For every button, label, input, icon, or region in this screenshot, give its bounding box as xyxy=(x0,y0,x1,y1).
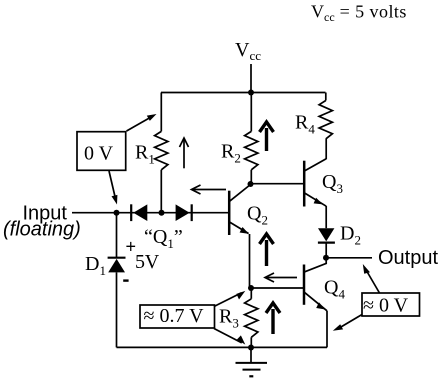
wire: Q4 emitter down xyxy=(326,311,328,348)
node: R3 top node dot xyxy=(248,285,254,291)
node: Q1 base node dot xyxy=(159,210,165,216)
callout arrow: 0 V box to R1 top xyxy=(127,114,157,131)
callout arrow: 0V box to Q4 emitter wire xyxy=(333,315,362,331)
diode Q1 base-collector (right) xyxy=(176,204,192,221)
wire: D1 anode lead xyxy=(116,213,118,258)
wire: D2 cathode to output node xyxy=(325,243,327,258)
svg-text:(floating): (floating) xyxy=(3,219,81,241)
resistor R3 xyxy=(245,299,258,338)
current arrow (bold, up) beside R3 xyxy=(266,303,280,334)
wire: Q3 base lead xyxy=(251,183,305,185)
wire: R3 bottom lead xyxy=(250,337,252,347)
node: output node dot xyxy=(323,255,329,261)
wire: R3 top lead xyxy=(250,288,252,299)
callout arrow: 0.7V box to ground node xyxy=(214,329,245,345)
resistor R1 xyxy=(155,131,168,169)
svg-text:V: V xyxy=(145,251,160,273)
svg-text:≈ 0 V: ≈ 0 V xyxy=(363,295,409,317)
svg-text:≈ 0.7 V: ≈ 0.7 V xyxy=(144,305,205,327)
wire: R4 to Q3 collector xyxy=(325,139,327,159)
current arrow (thin, left) above Q4 base xyxy=(265,273,297,282)
wire: bottom wire xyxy=(117,346,328,348)
node: rail junction dot xyxy=(248,90,254,96)
label - polarity (dash) xyxy=(123,279,128,281)
current arrow (bold, up) beside R2 xyxy=(260,122,274,151)
wire: R2 bottom lead xyxy=(250,170,252,184)
wire: Vcc lead xyxy=(250,64,252,93)
callout box ~0.7 V xyxy=(140,305,215,328)
node: ground node dot xyxy=(248,345,254,351)
wire: Q2 emitter lead down xyxy=(249,234,251,288)
current arrow (bold, up) beside Q2 emitter xyxy=(260,234,274,266)
diode Q1 base-emitter (left) xyxy=(131,204,147,221)
callout arrow: 0V box to output line xyxy=(363,264,380,293)
svg-text:0 V: 0 V xyxy=(84,143,114,165)
transistor Q3 xyxy=(304,159,326,207)
ground xyxy=(236,348,268,377)
wire: R1 bottom lead xyxy=(160,170,162,213)
current arrow (thin, up) beside R1 xyxy=(180,138,189,168)
node: Q2 collector node dot xyxy=(248,181,254,187)
wire: R4 top lead xyxy=(325,93,327,101)
node: input node dot xyxy=(114,210,120,216)
svg-text:5: 5 xyxy=(135,251,145,273)
wire: output line xyxy=(326,257,372,259)
callout box ~0 V xyxy=(362,293,420,316)
wire: top supply rail xyxy=(161,92,326,94)
current arrow (thin, left) above Q2 base xyxy=(192,185,227,194)
wire: D1 cathode to bottom wire xyxy=(116,272,118,347)
wire: R1 top lead xyxy=(160,93,162,132)
transistor Q2 xyxy=(229,185,250,236)
wire: Q4 base lead xyxy=(251,287,304,289)
svg-text:“Q1”: “Q1” xyxy=(144,226,183,251)
wire: Q3 emitter to D2 xyxy=(325,206,327,228)
callout arrow: 0.7V box to R3 top node xyxy=(214,291,245,307)
wire: input line xyxy=(72,212,229,214)
wire: R2 top lead xyxy=(250,93,252,132)
diode D2 xyxy=(318,228,335,242)
diode D1 xyxy=(108,258,126,273)
callout box 0 V xyxy=(77,132,126,171)
callout arrow: 0 V box to input node xyxy=(109,171,117,205)
svg-text:Output: Output xyxy=(378,247,438,269)
resistor R4 xyxy=(319,101,332,139)
transistor Q4 xyxy=(304,258,327,311)
resistor R2 xyxy=(245,131,258,169)
